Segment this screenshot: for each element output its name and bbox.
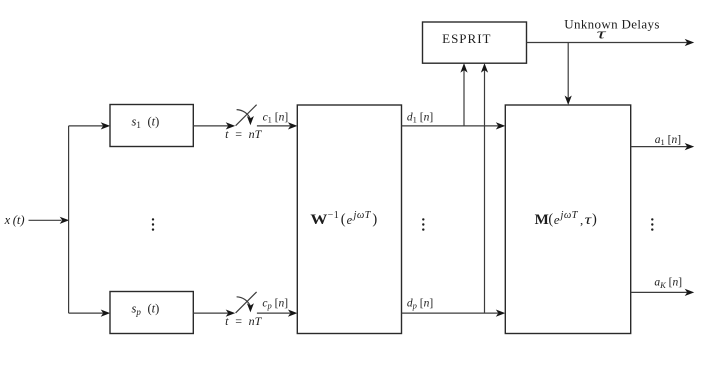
svg-text:τ: τ: [597, 26, 607, 42]
wire aK output: [631, 289, 695, 296]
svg-text:cp [n]: cp [n]: [262, 297, 288, 310]
wire ESPRIT feed from d1 line: [460, 63, 467, 126]
vdots between s1 and sp: [152, 218, 154, 231]
wire ESPRIT output tau to right edge: [527, 39, 695, 46]
svg-text:Unknown Delays: Unknown Delays: [564, 17, 660, 32]
svg-text:sp (t): sp (t): [131, 302, 159, 317]
wire c1 sampler output to W block: [257, 122, 298, 129]
wire cp sampler output to W block: [257, 310, 298, 317]
node x(t) input label: [4, 213, 25, 227]
svg-text:c1 [n]: c1 [n]: [263, 112, 289, 125]
svg-text:t = nT: t = nT: [225, 127, 262, 141]
svg-text:aK [n]: aK [n]: [654, 277, 682, 290]
node a1[n] label: [655, 134, 681, 147]
svg-text:): ): [592, 212, 597, 228]
wire input from x(t) to branch node: [29, 217, 70, 224]
ESPRIT block: [423, 22, 527, 63]
svg-text:e: e: [554, 213, 560, 227]
label Unknown Delays: [564, 17, 660, 32]
filter sp box: [110, 292, 193, 334]
wire sp to sampler 2: [193, 310, 235, 317]
svg-text:,: ,: [580, 213, 583, 228]
node dp[n] label: [407, 298, 433, 311]
sampler 1 closing arc arrow: [237, 110, 254, 126]
sampler 2 closing arc arrow: [237, 297, 254, 313]
sampler 2 switch arm: [236, 292, 257, 313]
svg-text:d1 [n]: d1 [n]: [407, 111, 433, 124]
svg-text:a1 [n]: a1 [n]: [655, 134, 681, 147]
vdots between a1 and aK: [651, 218, 653, 231]
wire d1 from W to M: [402, 122, 506, 129]
svg-text:): ): [372, 212, 377, 228]
wire branch to filter s1: [69, 122, 111, 129]
label tau: [597, 26, 607, 42]
label t=nT sampler 1: [225, 127, 262, 141]
filter s1 box: [110, 105, 193, 147]
wire a1 output: [631, 143, 695, 150]
modulator M block: [505, 105, 630, 334]
svg-text:(: (: [341, 212, 346, 228]
node cp[n] label: [262, 297, 288, 310]
vdots between d1 and dp: [422, 218, 424, 231]
wire ESPRIT feed from dp line: [481, 63, 488, 313]
wire s1 to sampler 1: [193, 122, 235, 129]
svg-text:s1 (t): s1 (t): [131, 115, 159, 130]
wire dp from W to M: [402, 310, 506, 317]
svg-text:dp [n]: dp [n]: [407, 298, 433, 311]
node aK[n] label: [654, 277, 682, 290]
sampler 1 switch arm: [236, 105, 257, 126]
node d1[n] label: [407, 111, 433, 124]
svg-text:W: W: [310, 212, 327, 228]
node c1[n] label: [263, 112, 289, 125]
wire branch vertical bus: [68, 126, 70, 313]
svg-text:jωT: jωT: [352, 210, 372, 221]
svg-text:jωT: jωT: [559, 210, 579, 221]
svg-text:e: e: [347, 213, 353, 227]
svg-text:x (t): x (t): [4, 213, 25, 227]
wire tau drop into M block: [565, 43, 572, 106]
svg-text:ESPRIT: ESPRIT: [442, 31, 491, 46]
svg-text:−1: −1: [328, 210, 340, 221]
svg-text:t = nT: t = nT: [225, 314, 262, 328]
label t=nT sampler 2: [225, 314, 262, 328]
wire branch to filter sp: [69, 310, 111, 317]
filterbank inverse W block: [297, 105, 401, 334]
svg-text:(: (: [548, 212, 553, 228]
svg-text:M: M: [535, 212, 549, 228]
